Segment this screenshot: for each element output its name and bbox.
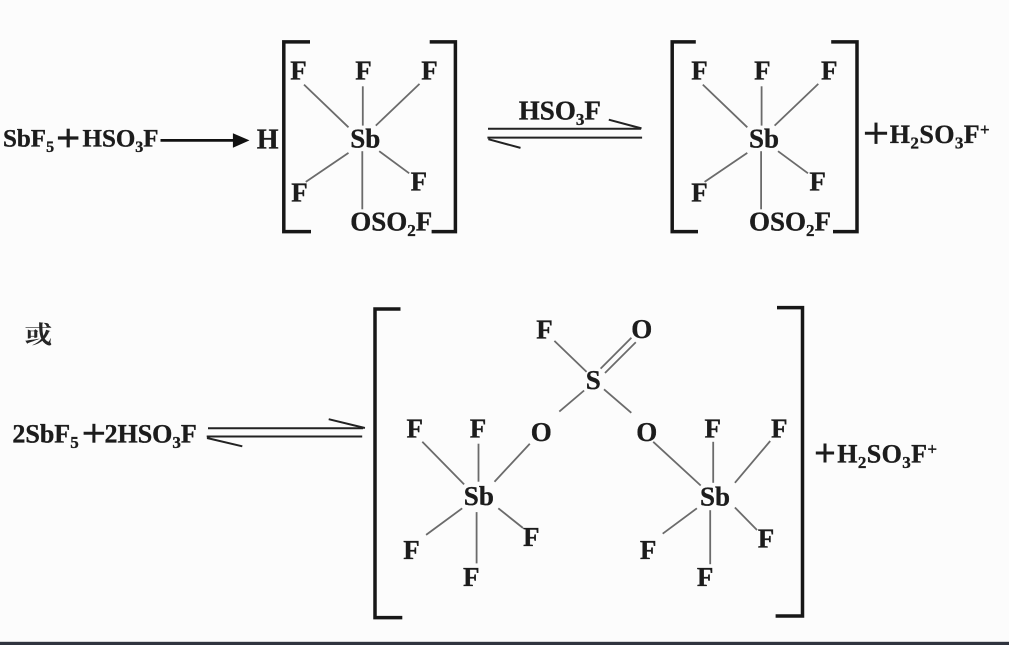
svg-text:F: F xyxy=(754,56,771,86)
bond Sb3 to top-left F xyxy=(422,442,464,485)
right bracket of anion 2 xyxy=(831,42,857,232)
bond Sb4 to bottom F xyxy=(709,510,711,564)
bond Sb4 to top F xyxy=(712,442,714,483)
bond Sb1 to OSO2F xyxy=(361,151,363,209)
bond Sb2 to bottom-left F (anion 2) xyxy=(705,153,748,182)
svg-text:HSO3​F: HSO3​F xyxy=(519,96,601,130)
svg-text:F: F xyxy=(291,178,308,208)
svg-text:H2​SO3​F+: H2​SO3​F+ xyxy=(890,120,990,153)
svg-text:F: F xyxy=(536,315,553,345)
svg-text:F: F xyxy=(821,56,838,86)
equilibrium arrows bottom row xyxy=(207,419,365,446)
bond F to S bridge xyxy=(554,341,586,372)
svg-text:F: F xyxy=(403,535,420,565)
double bond S=O xyxy=(601,338,636,373)
svg-text:F: F xyxy=(463,562,480,592)
left bracket of bridged anion xyxy=(375,309,402,618)
svg-text:S: S xyxy=(586,365,601,395)
svg-text:F: F xyxy=(407,413,424,443)
bond Sb2 to top-left F (anion 2) xyxy=(703,85,748,128)
bond Sb3 to top F xyxy=(478,444,480,482)
reaction arrow xyxy=(161,133,250,148)
equilibrium arrows top row xyxy=(487,120,642,148)
svg-text:F: F xyxy=(758,524,775,554)
svg-text:F: F xyxy=(470,413,487,443)
svg-text:F: F xyxy=(523,522,540,552)
svg-text:Sb: Sb xyxy=(350,124,380,154)
bond Sb4 to bottom-left F xyxy=(663,508,697,533)
bond S to left bridging O xyxy=(559,391,584,412)
svg-text:Sb: Sb xyxy=(749,124,779,154)
bond Sb2 to top F (anion 2) xyxy=(761,86,763,125)
svg-text:O: O xyxy=(531,417,552,447)
plus sign 1 xyxy=(58,129,79,148)
svg-text:Sb: Sb xyxy=(464,481,494,511)
right bracket of anion 1 xyxy=(430,42,456,232)
left bracket of anion 2 xyxy=(672,42,698,232)
bottom border bar xyxy=(0,642,1009,645)
bond Sb4 to top-right F xyxy=(735,441,770,483)
svg-text:OSO2​F: OSO2​F xyxy=(350,207,432,241)
plus sign 4 xyxy=(816,444,834,463)
svg-text:2SbF5: 2SbF5 xyxy=(12,419,78,452)
svg-text:F: F xyxy=(421,56,438,86)
bond Sb1 to bottom-left F xyxy=(306,153,349,182)
right bracket of bridged anion xyxy=(776,308,803,616)
bond left O to Sb3 xyxy=(495,444,530,482)
svg-text:F: F xyxy=(809,167,826,197)
svg-text:H2​SO3​F+: H2​SO3​F+ xyxy=(837,440,937,473)
bond Sb1 to top F xyxy=(362,86,364,125)
bond right O to Sb4 xyxy=(653,442,701,486)
left bracket of anion 1 xyxy=(284,42,311,232)
svg-text:F: F xyxy=(290,56,307,86)
plus sign 3 xyxy=(865,123,887,144)
svg-text:2HSO3​F: 2HSO3​F xyxy=(105,419,197,452)
svg-text:O: O xyxy=(631,314,652,344)
svg-text:F: F xyxy=(355,56,372,86)
bond Sb1 to top-left F xyxy=(304,85,349,128)
bond Sb2 to top-right F (anion 2) xyxy=(775,84,819,126)
bond Sb3 to bottom-left F xyxy=(426,508,462,535)
svg-text:F: F xyxy=(411,167,428,197)
plus sign 2 xyxy=(84,424,105,443)
bond Sb2 to right-lower F (anion 2) xyxy=(778,151,808,173)
bond S to right bridging O xyxy=(604,389,631,413)
svg-text:F: F xyxy=(640,535,657,565)
svg-text:OSO2​F: OSO2​F xyxy=(749,207,831,241)
bond Sb4 to bottom-right F xyxy=(735,508,757,531)
bond Sb3 to bottom-right F xyxy=(498,508,523,528)
svg-text:H: H xyxy=(257,124,279,155)
bond Sb1 to top-right F xyxy=(376,84,420,126)
svg-text:F: F xyxy=(771,413,788,443)
svg-text:F: F xyxy=(691,56,708,86)
bond Sb2 to OSO2F (anion 2) xyxy=(760,151,762,209)
svg-text:HSO3​F: HSO3​F xyxy=(83,126,159,157)
Chinese character huo (or) xyxy=(25,322,51,345)
bond Sb1 to right-lower F xyxy=(379,151,409,173)
svg-text:F: F xyxy=(697,562,714,592)
bond Sb3 to bottom F xyxy=(476,512,478,563)
svg-text:F: F xyxy=(705,413,722,443)
svg-text:Sb: Sb xyxy=(700,482,730,512)
